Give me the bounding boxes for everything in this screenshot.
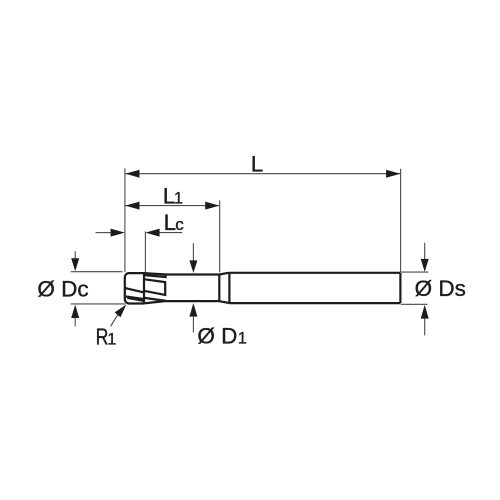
arrow L left (125, 170, 139, 178)
dimension line Lc left tail (96, 232, 112, 234)
D1 bottom arrow tail (192, 317, 194, 333)
cutter face edge (143, 273, 145, 304)
Ds bottom arrow tail (424, 319, 426, 336)
arrow L right (386, 170, 400, 178)
extension line left (L/L1/Lc origin) (124, 168, 126, 272)
cone top (219, 273, 229, 275)
flute helix top edge (145, 275, 166, 277)
extension line L1 right (219, 200, 221, 272)
cone bottom (219, 301, 229, 303)
arrow Dc top (pointing down) (71, 258, 79, 271)
svg-text:1: 1 (238, 329, 247, 347)
shank start edge (228, 273, 230, 303)
svg-text:Ø D: Ø D (197, 323, 237, 348)
face flute diagonal B (125, 296, 144, 299)
Dc top arrow tail (74, 251, 76, 258)
R1 leader arrow (115, 305, 127, 318)
extension line L right (400, 169, 402, 272)
Ds top arrow tail (424, 243, 426, 260)
dimension line Lc right tail (160, 232, 183, 234)
arrow Dc bottom (pointing up) (71, 305, 79, 318)
svg-text:1: 1 (174, 189, 183, 207)
svg-text:Ø Dc: Ø Dc (37, 276, 88, 301)
arrow L1 left (125, 202, 139, 210)
svg-text:Ø Ds: Ø Ds (415, 276, 466, 301)
Ds extension line top (401, 271, 429, 273)
shank right end edge (399, 273, 401, 303)
Dc extension line top (71, 271, 123, 273)
arrow L1 right (205, 202, 219, 210)
flute section top outline (144, 273, 166, 274)
face flute diagonal C (127, 298, 144, 301)
arrow Lc left (outside, pointing right) (111, 229, 125, 237)
arrow D1 top (pointing down) (189, 260, 197, 273)
neck top edge (166, 273, 220, 275)
flute section bottom outline (144, 301, 166, 303)
arrow Lc right (outside, pointing left) (145, 229, 159, 237)
flute bottom wedge upper line (144, 298, 166, 301)
Dc bottom arrow tail (74, 318, 76, 326)
arrow Ds bottom (pointing up) (421, 305, 429, 319)
svg-text:c: c (175, 215, 184, 234)
svg-text:L: L (251, 152, 264, 177)
arrow Ds top (pointing down) (421, 259, 429, 272)
shank top edge (229, 272, 400, 274)
R1 leader line (111, 314, 119, 326)
Ds extension line bottom (401, 303, 428, 305)
D1 top arrow tail (192, 243, 194, 261)
cutter head outline (rounded front) (125, 273, 144, 303)
dimension line L (125, 173, 400, 175)
shank bottom edge (229, 302, 400, 304)
Dc extension line bottom (71, 303, 126, 305)
extension line Lc right (144, 231, 146, 272)
flute window (145, 279, 166, 295)
face flute diagonal A (125, 288, 144, 292)
dimension line L1 (125, 205, 219, 207)
arrow D1 bottom (pointing up) (189, 303, 197, 317)
neck end edge (218, 275, 220, 302)
svg-text:1: 1 (107, 331, 116, 349)
neck bottom edge (166, 300, 219, 302)
